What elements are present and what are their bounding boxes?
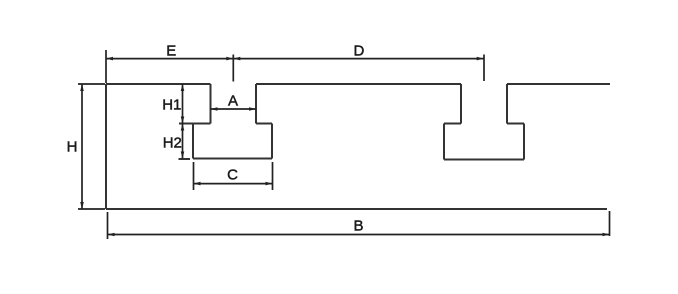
- T-slot 2 narrow walls: [461, 84, 507, 124]
- T-slot 1 step shoulders: [179, 123, 272, 125]
- svg-text:E: E: [166, 43, 176, 60]
- dim E line: [106, 58, 233, 60]
- dim E/D shared center tick: [232, 55, 234, 82]
- arrow E right: [226, 57, 233, 61]
- T-slot 1 narrow walls: [211, 84, 257, 124]
- plate left edge: [105, 84, 107, 209]
- svg-text:D: D: [353, 43, 364, 60]
- arrow H bottom: [80, 202, 84, 209]
- dim E extension left: [105, 50, 107, 83]
- dim H extensions: [78, 84, 105, 209]
- plate top edge: [106, 83, 610, 85]
- plate bottom edge: [106, 208, 607, 210]
- arrow H top: [80, 84, 84, 91]
- dim B line: [108, 234, 610, 236]
- dim D extension right: [483, 55, 485, 82]
- T-slot 1 wide walls: [193, 124, 272, 159]
- svg-text:H2: H2: [163, 134, 182, 151]
- dim A line: [211, 108, 257, 110]
- svg-text:H1: H1: [162, 96, 181, 113]
- arrow H2 bottom: [181, 152, 185, 159]
- dim H line: [81, 84, 83, 209]
- T-slot 2 bottom: [444, 159, 524, 161]
- arrow D left: [233, 57, 240, 61]
- arrow A left: [211, 107, 218, 111]
- arrow D right: [477, 57, 484, 61]
- svg-text:H: H: [67, 138, 78, 155]
- arrow H1 bottom: [181, 117, 185, 124]
- dim H1 line: [182, 84, 184, 124]
- arrow B left: [108, 233, 115, 237]
- svg-text:B: B: [353, 217, 363, 234]
- arrow E left: [106, 57, 113, 61]
- arrow A right: [249, 107, 256, 111]
- dim C line: [194, 183, 273, 185]
- svg-text:C: C: [227, 167, 238, 184]
- dim H2 line: [182, 124, 184, 159]
- dim C extensions: [194, 162, 273, 190]
- dim B extensions: [108, 211, 610, 239]
- svg-text:A: A: [228, 92, 238, 109]
- arrow H2 top: [181, 124, 185, 131]
- dim D line: [233, 58, 483, 60]
- arrow C left: [194, 182, 201, 186]
- T-slot 1 bottom: [193, 158, 272, 160]
- arrow C right: [266, 182, 273, 186]
- H2 bottom extension: [179, 158, 191, 160]
- T-slot 2 wide walls: [444, 124, 524, 160]
- arrow H1 top: [181, 84, 185, 91]
- T-slot 2 step shoulders: [444, 123, 524, 125]
- arrow B right: [603, 233, 610, 237]
